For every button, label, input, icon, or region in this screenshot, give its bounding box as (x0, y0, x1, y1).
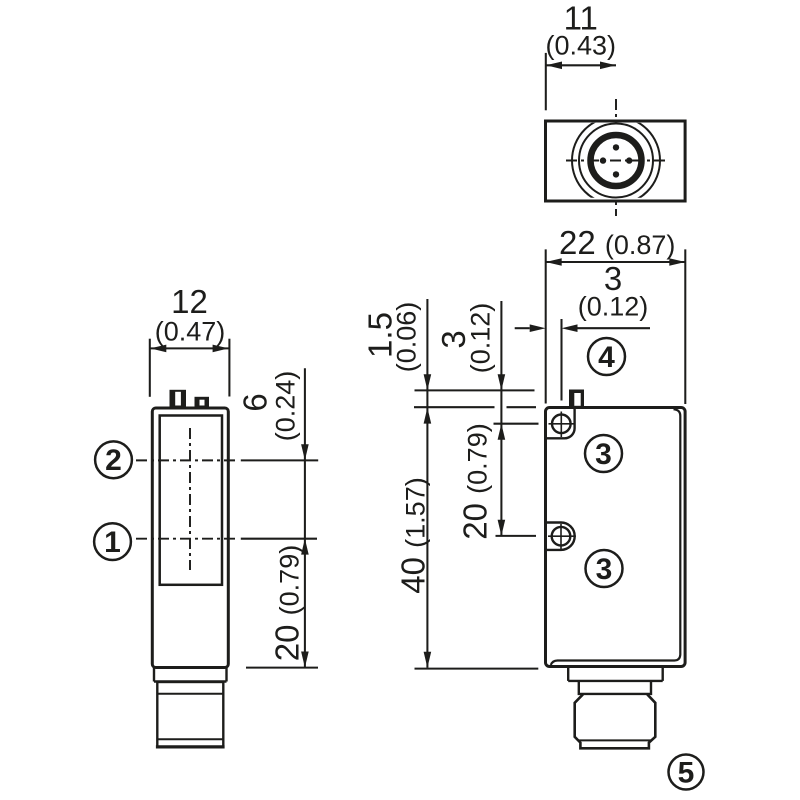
svg-text:3: 3 (595, 438, 612, 471)
front view connector bottom edge (156, 745, 225, 748)
svg-text:20 (0.79): 20 (0.79) (457, 423, 494, 539)
label 4 (588, 338, 625, 375)
axis line 2 extension (241, 459, 318, 461)
dimension line 22 (546, 258, 686, 266)
svg-text:(0.24): (0.24) (271, 371, 301, 442)
top view housing outline (546, 121, 686, 201)
extension line body bottom for 40 dim (415, 668, 539, 670)
side view body outline (546, 408, 686, 667)
extension line left of 22 dim (545, 249, 547, 403)
svg-text:(0.06): (0.06) (391, 302, 421, 373)
dimension line 3 vertical (498, 301, 506, 424)
horizontal centerline of connector (566, 160, 667, 162)
svg-text:(0.12): (0.12) (578, 292, 649, 322)
front view optical window (160, 416, 222, 585)
svg-text:4: 4 (598, 341, 615, 374)
svg-text:6: 6 (237, 393, 274, 411)
extension line right of 22 dim (684, 249, 686, 404)
dimension line 6 (301, 368, 309, 460)
top mounting lug (547, 409, 575, 438)
extension line tab top (415, 389, 535, 391)
dimension line 3 horizontal (515, 324, 650, 332)
side view connector barrel (575, 694, 656, 748)
extension line hole center (560, 319, 562, 401)
bottom mounting lug (547, 523, 575, 550)
connector bezel circle (579, 124, 653, 198)
mounting tab on top of side view (569, 390, 584, 409)
axis line 1 (136, 538, 238, 540)
vertical centerline of connector (615, 99, 617, 216)
front view connector line lower (157, 738, 223, 740)
dimension line 12 (150, 345, 228, 353)
svg-text:20 (0.79): 20 (0.79) (268, 545, 305, 661)
dimension line 40 (424, 408, 432, 668)
label 2 (95, 441, 132, 478)
connector pins (600, 144, 633, 177)
svg-text:(0.47): (0.47) (155, 317, 226, 347)
side view collar (568, 668, 663, 681)
connector outer circle (572, 117, 660, 205)
front view body outline (152, 408, 228, 668)
extension line left of 12 dim (149, 339, 151, 397)
extension line bottom hole center (496, 535, 537, 537)
extension line right of 12 dim (228, 339, 230, 397)
side view connector step (579, 681, 651, 694)
svg-text:2: 2 (105, 444, 122, 477)
axis line 1 extension (241, 538, 317, 540)
svg-text:(0.12): (0.12) (465, 303, 495, 374)
svg-text:12: 12 (171, 283, 208, 320)
dimension line 11 (546, 62, 616, 70)
extension line left of 11 dim (545, 53, 547, 110)
label 3 upper (585, 435, 622, 472)
front view vertical centerline (189, 428, 191, 570)
svg-text:40 (1.57): 40 (1.57) (395, 477, 432, 593)
svg-text:22 (0.87): 22 (0.87) (559, 224, 675, 261)
label 3 lower (586, 550, 623, 587)
axis line 2 (136, 459, 238, 461)
label 5 (669, 755, 704, 790)
svg-text:5: 5 (678, 756, 695, 789)
svg-text:1: 1 (104, 526, 121, 559)
top mounting hole (549, 412, 576, 438)
side view inner edge line (551, 409, 681, 665)
extension line front body bottom (246, 667, 318, 669)
extension line top hole center (494, 423, 539, 425)
dimension line 20 left view (301, 460, 309, 667)
front view connector line upper (157, 693, 223, 695)
label 1 (94, 523, 131, 560)
svg-text:(0.43): (0.43) (546, 31, 617, 61)
bottom mounting hole (548, 524, 576, 550)
front view left pin (170, 390, 187, 408)
dimension line 20 right view (498, 424, 506, 536)
svg-text:3: 3 (596, 553, 613, 586)
extension line body top (414, 406, 536, 408)
side view connector knurl line (579, 739, 652, 741)
front view collar (154, 668, 227, 682)
front view right pin (195, 397, 210, 408)
connector ring (591, 135, 642, 186)
dimension line 1.5 (424, 299, 432, 408)
front view connector barrel (157, 682, 223, 747)
